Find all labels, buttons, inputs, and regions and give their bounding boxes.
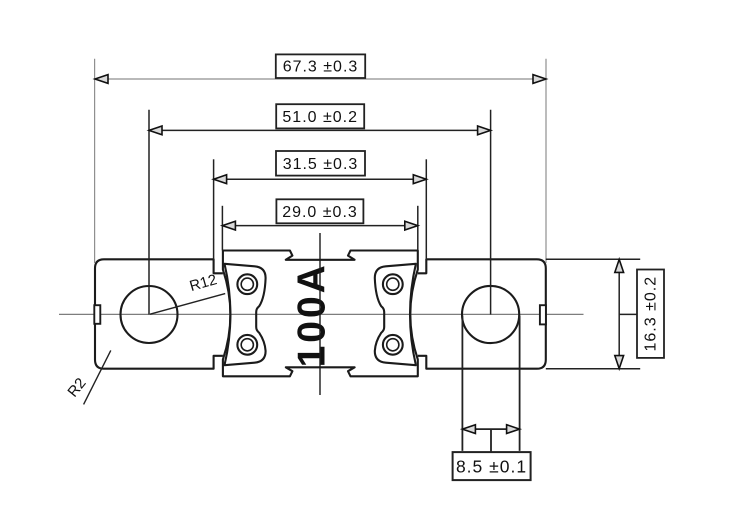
right mounting hole — [462, 286, 519, 343]
dimension 16.3 extension line top — [546, 258, 640, 260]
left tab edge notch — [94, 305, 100, 324]
svg-text:29.0 ±0.3: 29.0 ±0.3 — [282, 204, 358, 221]
svg-text:31.5 ±0.3: 31.5 ±0.3 — [283, 156, 359, 173]
rivet top-left — [237, 274, 257, 294]
rivet bottom-left — [237, 335, 257, 355]
dimension 51.0 extension line right — [490, 110, 492, 315]
R12 leader — [150, 294, 225, 315]
dimension 67.3 extension line left — [94, 59, 96, 263]
svg-text:100A: 100A — [291, 262, 334, 367]
dimension 8.5 arrow right — [507, 425, 520, 434]
dimension 29.0 arrow right — [405, 221, 418, 230]
vertical centerline — [319, 233, 321, 395]
dimension 31.5 arrow left — [214, 175, 227, 184]
dimension 8.5 line — [462, 428, 519, 430]
left terminal tab — [95, 259, 223, 368]
fuse body outline — [223, 251, 418, 377]
dimension 51.0 value box — [276, 104, 364, 128]
dimension 16.3 value box — [637, 270, 664, 358]
dimension 67.3 arrow left — [95, 75, 108, 84]
dimension 51.0 arrow left — [149, 126, 162, 135]
dimension 29.0 extension line left — [221, 206, 223, 251]
dimension 16.3 extension line bottom — [546, 368, 640, 370]
svg-text:8.5 ±0.1: 8.5 ±0.1 — [456, 456, 527, 476]
dimension 31.5 line — [214, 178, 427, 180]
dimension 29.0 arrow left — [222, 221, 235, 230]
rivet top-right — [383, 274, 403, 294]
dimension 16.3 arrow top — [615, 259, 624, 272]
dimension 29.0 line — [222, 225, 417, 227]
right element blob — [375, 264, 416, 365]
dimension 51.0 arrow right — [478, 126, 491, 135]
left element blob — [225, 264, 266, 365]
dimension 29.0 extension line right — [417, 206, 419, 251]
dimension 31.5 extension line right — [425, 159, 427, 259]
dimension 67.3 extension line right — [545, 59, 547, 263]
svg-text:R12: R12 — [188, 271, 219, 295]
dimension 31.5 extension line left — [213, 159, 215, 259]
dimension 8.5 value box — [453, 452, 531, 480]
svg-text:16.3 ±0.2: 16.3 ±0.2 — [643, 276, 660, 352]
svg-text:R2: R2 — [64, 375, 89, 401]
dimension 16.3 line — [618, 259, 620, 368]
dimension 8.5 arrow left — [462, 425, 475, 434]
dimension 51.0 extension line left — [148, 110, 150, 315]
dimension 51.0 line — [149, 129, 491, 131]
dimension 31.5 value box — [276, 151, 365, 176]
dimension 16.3 arrow bottom — [615, 356, 624, 369]
dimension 16.3 connector — [619, 313, 637, 315]
svg-text:51.0 ±0.2: 51.0 ±0.2 — [282, 109, 358, 126]
dimension 8.5 leader — [490, 429, 492, 452]
dimension 8.5 extension line left — [461, 316, 463, 451]
svg-text:67.3 ±0.3: 67.3 ±0.3 — [283, 59, 359, 76]
dimension 67.3 line — [95, 78, 546, 80]
R2 leader — [84, 350, 111, 404]
left mounting hole — [121, 286, 178, 343]
rivet bottom-right — [383, 335, 403, 355]
dimension 67.3 arrow right — [533, 75, 546, 84]
right tab edge notch — [540, 305, 546, 324]
horizontal centerline — [59, 313, 584, 315]
dimension 8.5 extension line right — [519, 316, 521, 451]
dimension 29.0 value box — [276, 199, 363, 223]
dimension 31.5 arrow right — [413, 175, 426, 184]
right terminal tab — [418, 259, 546, 368]
dimension 67.3 value box — [276, 54, 365, 78]
